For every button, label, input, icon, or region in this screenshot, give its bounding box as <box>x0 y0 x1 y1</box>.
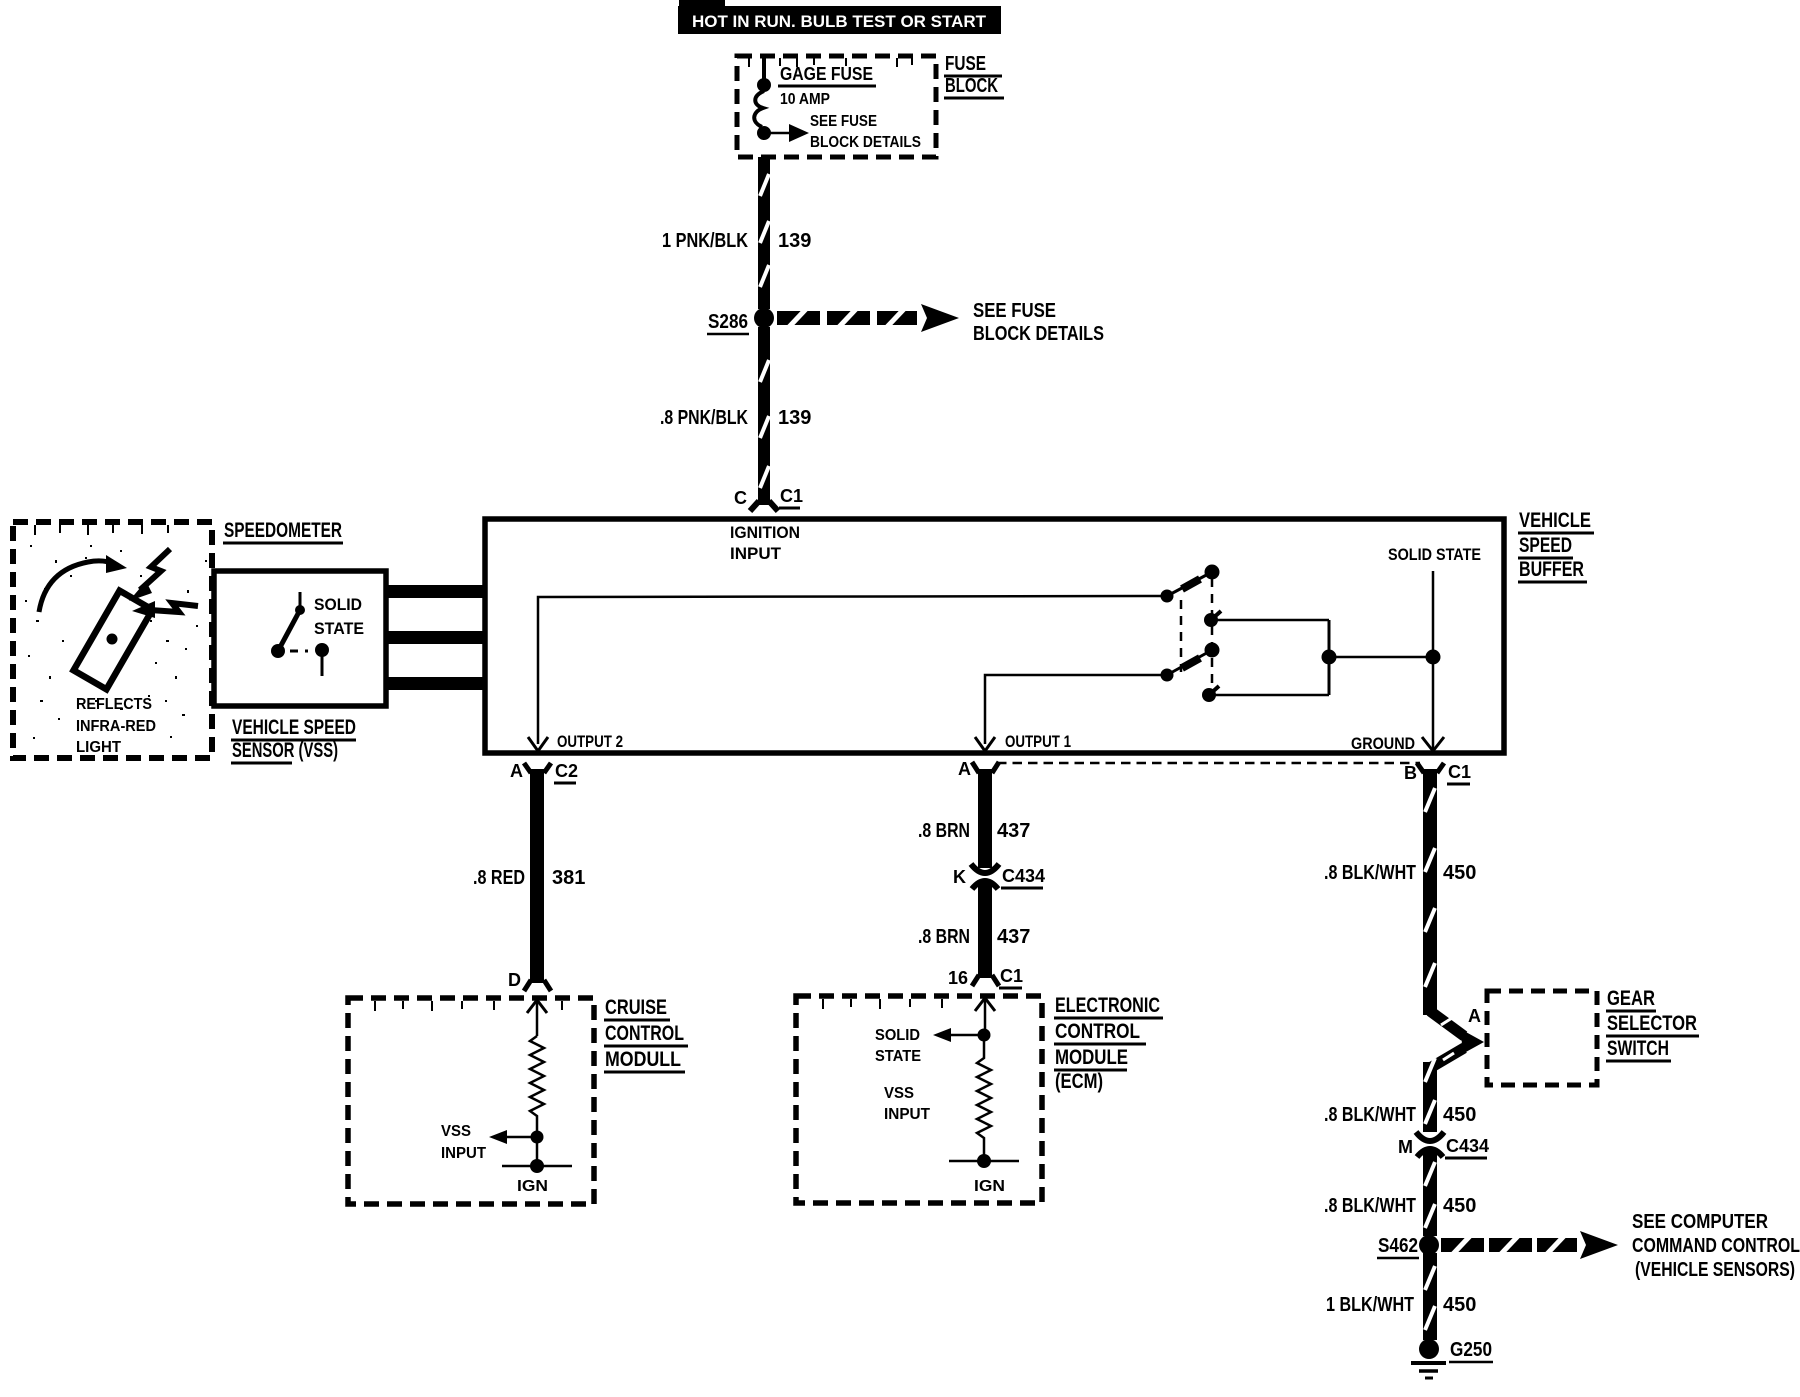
wire .8 BLK/WHT 450 middle <box>1423 1058 1437 1132</box>
svg-text:450: 450 <box>1443 1104 1476 1126</box>
cruise input arrow <box>527 1000 547 1036</box>
svg-text:COMMAND CONTROL: COMMAND CONTROL <box>1632 1235 1800 1257</box>
svg-text:437: 437 <box>997 926 1030 948</box>
infra-red beam arrow lower <box>132 601 198 618</box>
svg-text:C: C <box>734 488 747 508</box>
svg-text:A: A <box>510 761 523 781</box>
splice S462 <box>1377 1235 1439 1258</box>
connector B C1 below buffer (right) <box>1404 762 1471 784</box>
label VEHICLE SPEED BUFFER <box>1518 509 1594 582</box>
svg-text:C1: C1 <box>780 486 803 506</box>
connector A C2 below buffer <box>510 761 578 783</box>
svg-text:G250: G250 <box>1450 1339 1492 1361</box>
wire kink into gear selector switch A <box>1430 1011 1484 1068</box>
svg-text:STATE: STATE <box>314 619 364 638</box>
svg-text:SOLID: SOLID <box>314 595 362 614</box>
svg-text:139: 139 <box>778 230 811 252</box>
label VSS INPUT (ecm) <box>884 1085 930 1123</box>
svg-text:INPUT: INPUT <box>730 544 782 563</box>
label IGNITION INPUT <box>730 523 800 563</box>
cruise control module dashed box <box>348 998 594 1204</box>
svg-text:16: 16 <box>948 968 968 988</box>
dashed arrow S462 to computer command control <box>1441 1231 1618 1259</box>
svg-text:INPUT: INPUT <box>441 1145 486 1162</box>
svg-text:.8 BRN: .8 BRN <box>918 926 970 948</box>
wire .8 BLK/WHT 450 lower <box>1423 1152 1437 1236</box>
arrow to fuse block details <box>766 124 809 142</box>
svg-text:(VEHICLE SENSORS): (VEHICLE SENSORS) <box>1635 1259 1795 1281</box>
label GAGE FUSE <box>778 64 876 86</box>
wire .8 BRN 437 upper <box>978 769 992 868</box>
svg-text:437: 437 <box>997 820 1030 842</box>
svg-text:139: 139 <box>778 407 811 429</box>
ecm input arrow <box>975 998 995 1032</box>
vss sensor element <box>271 592 329 676</box>
svg-text:450: 450 <box>1443 862 1476 884</box>
wire 1 BLK/WHT 450 to ground <box>1423 1253 1437 1340</box>
internal wire to output 2 <box>528 596 1164 751</box>
svg-text:SEE FUSE: SEE FUSE <box>973 300 1056 322</box>
svg-text:M: M <box>1398 1137 1413 1157</box>
cruise vss input node and arrow <box>489 1130 544 1144</box>
svg-text:B: B <box>1404 763 1417 783</box>
vehicle speed sensor box <box>214 571 386 706</box>
svg-text:BLOCK DETAILS: BLOCK DETAILS <box>810 134 921 151</box>
wire stub into fuse <box>762 57 766 82</box>
svg-text:BLOCK: BLOCK <box>945 75 998 97</box>
svg-text:.8 BLK/WHT: .8 BLK/WHT <box>1324 862 1416 884</box>
label G250 <box>1449 1339 1493 1362</box>
internal wire to output 1 <box>975 675 1164 751</box>
svg-text:SPEEDOMETER: SPEEDOMETER <box>224 519 342 542</box>
svg-text:VEHICLE: VEHICLE <box>1519 509 1591 532</box>
label SEE FUSE BLOCK DETAILS (right of S286) <box>973 300 1104 345</box>
svg-text:ELECTRONIC: ELECTRONIC <box>1055 994 1160 1017</box>
electronic control module dashed box <box>796 996 1042 1203</box>
svg-text:SELECTOR: SELECTOR <box>1607 1012 1697 1035</box>
svg-text:IGN: IGN <box>517 1178 548 1195</box>
svg-text:SOLID: SOLID <box>875 1027 920 1044</box>
svg-text:CRUISE: CRUISE <box>605 996 667 1019</box>
svg-text:K: K <box>953 867 966 887</box>
label CRUISE CONTROL MODULL <box>604 996 688 1072</box>
connector M C434 <box>1398 1132 1489 1158</box>
label ELECTRONIC CONTROL MODULE (ECM) <box>1054 994 1163 1093</box>
svg-text:C434: C434 <box>1446 1136 1489 1156</box>
svg-text:MODULL: MODULL <box>605 1048 681 1071</box>
svg-text:450: 450 <box>1443 1195 1476 1217</box>
svg-text:1 PNK/BLK: 1 PNK/BLK <box>662 230 748 252</box>
label SPEEDOMETER <box>223 519 343 543</box>
vehicle speed buffer box <box>485 519 1504 753</box>
label SEE FUSE BLOCK DETAILS <box>810 113 921 151</box>
svg-text:.8 RED: .8 RED <box>473 867 525 889</box>
svg-text:C2: C2 <box>555 761 578 781</box>
node: pole dot upper with wire to right <box>1204 611 1329 627</box>
splice S286 <box>707 308 774 334</box>
svg-text:SOLID STATE: SOLID STATE <box>1388 545 1481 564</box>
vss to buffer bus bar 1 <box>386 585 485 598</box>
svg-text:SWITCH: SWITCH <box>1607 1037 1669 1060</box>
cruise ign node <box>502 1137 572 1173</box>
connector A C1 below buffer (ECM drop) <box>958 759 999 779</box>
reflective vane <box>74 591 153 690</box>
svg-text:.8 BLK/WHT: .8 BLK/WHT <box>1324 1104 1416 1126</box>
svg-text:HOT IN RUN. BULB TEST OR START: HOT IN RUN. BULB TEST OR START <box>692 12 987 31</box>
label GEAR SELECTOR SWITCH <box>1606 987 1699 1061</box>
gear selector switch dashed box <box>1487 991 1597 1085</box>
svg-text:IGN: IGN <box>974 1178 1005 1195</box>
power feed banner HOT IN RUN, BULB TEST OR START <box>678 0 1001 34</box>
switch linkage dashed lines <box>1181 578 1212 694</box>
label SOLID STATE (ecm) <box>875 1027 921 1065</box>
svg-text:CONTROL: CONTROL <box>605 1022 684 1045</box>
svg-text:SEE COMPUTER: SEE COMPUTER <box>1632 1211 1768 1233</box>
node: pole dot lower with wire to right <box>1202 686 1329 702</box>
ecm solid state node and arrow <box>933 1028 991 1042</box>
scan speckles <box>25 545 207 739</box>
connector C C1 at buffer top <box>734 486 803 511</box>
svg-text:S286: S286 <box>708 311 748 333</box>
svg-text:BLOCK DETAILS: BLOCK DETAILS <box>973 323 1104 345</box>
svg-text:IGNITION: IGNITION <box>730 523 800 542</box>
svg-text:381: 381 <box>552 867 585 889</box>
dashed arrow S286 to fuse block details <box>777 304 959 332</box>
junction node to ground line <box>1322 650 1441 665</box>
ecm ign node <box>949 1154 1019 1168</box>
label SEE COMPUTER COMMAND CONTROL (VEHICLE SENSORS) <box>1632 1211 1800 1281</box>
infra-red beam arrow upper <box>129 549 170 601</box>
svg-text:SEE FUSE: SEE FUSE <box>810 113 877 130</box>
svg-text:C434: C434 <box>1002 866 1045 886</box>
vss to buffer bus bar 3 <box>386 677 485 690</box>
svg-text:C1: C1 <box>1448 762 1471 782</box>
switch contact upper <box>1161 565 1220 603</box>
svg-text:450: 450 <box>1443 1294 1476 1316</box>
wire 1 PNK/BLK 139 from fuse block down to S286 <box>758 157 770 309</box>
svg-text:SENSOR (VSS): SENSOR (VSS) <box>232 739 338 762</box>
node dot below gage fuse <box>757 126 771 140</box>
svg-text:STATE: STATE <box>875 1048 921 1065</box>
svg-text:REFLECTS: REFLECTS <box>76 696 152 713</box>
label VEHICLE SPEED SENSOR (VSS) <box>231 716 356 763</box>
cruise resistor <box>530 1036 544 1131</box>
label VSS INPUT (cruise) <box>441 1123 486 1162</box>
svg-text:D: D <box>508 970 521 990</box>
svg-text:INFRA-RED: INFRA-RED <box>76 718 156 735</box>
dashed net below buffer box <box>997 762 1420 765</box>
svg-text:VEHICLE SPEED: VEHICLE SPEED <box>232 716 356 739</box>
connector K C434 <box>953 864 1045 889</box>
wire joining poles <box>1328 620 1331 695</box>
connector D at cruise module <box>508 970 551 991</box>
svg-text:OUTPUT 1: OUTPUT 1 <box>1005 732 1071 751</box>
svg-text:A: A <box>958 759 971 779</box>
fuse block dashed box <box>737 56 936 157</box>
svg-text:SPEED: SPEED <box>1519 534 1572 557</box>
label SOLID STATE (vss) <box>314 595 364 638</box>
svg-text:MODULE: MODULE <box>1055 1046 1128 1069</box>
speedometer dashed box <box>13 522 212 758</box>
svg-text:BUFFER: BUFFER <box>1519 558 1584 581</box>
ecm resistor <box>977 1035 991 1158</box>
svg-text:.8 BLK/WHT: .8 BLK/WHT <box>1324 1195 1416 1217</box>
svg-text:INPUT: INPUT <box>884 1106 930 1123</box>
svg-text:(ECM): (ECM) <box>1055 1070 1103 1093</box>
svg-text:GAGE FUSE: GAGE FUSE <box>780 64 873 84</box>
svg-text:S462: S462 <box>1378 1235 1418 1257</box>
connector 16 C1 at ECM <box>948 966 1023 988</box>
svg-text:FUSE: FUSE <box>945 53 986 75</box>
internal ground wire <box>1422 571 1444 751</box>
wire .8 BRN 437 lower <box>978 884 992 978</box>
svg-text:GEAR: GEAR <box>1607 987 1655 1010</box>
svg-text:A: A <box>1468 1006 1481 1026</box>
ground G250 <box>1411 1339 1446 1378</box>
svg-text:VSS: VSS <box>441 1123 471 1140</box>
wire .8 BLK/WHT 450 upper <box>1423 769 1437 1015</box>
wire .8 RED 381 <box>530 769 544 983</box>
label REFLECTS INFRA-RED LIGHT <box>76 696 156 756</box>
svg-text:CONTROL: CONTROL <box>1055 1020 1140 1043</box>
svg-text:C1: C1 <box>1000 966 1023 986</box>
gage fuse element <box>754 91 764 127</box>
svg-text:GROUND: GROUND <box>1351 734 1415 753</box>
wire .8 PNK/BLK 139 from S286 down to C1 <box>758 327 770 505</box>
svg-text:.8 BRN: .8 BRN <box>918 820 970 842</box>
node dot above gage fuse <box>757 78 771 92</box>
label FUSE BLOCK <box>944 53 1004 98</box>
svg-text:1 BLK/WHT: 1 BLK/WHT <box>1326 1294 1414 1316</box>
rotation arc arrow <box>39 555 127 612</box>
svg-text:OUTPUT 2: OUTPUT 2 <box>557 732 623 751</box>
svg-text:.8 PNK/BLK: .8 PNK/BLK <box>660 407 748 429</box>
vss to buffer bus bar 2 <box>386 631 485 644</box>
switch contact lower <box>1161 643 1220 682</box>
svg-text:VSS: VSS <box>884 1085 914 1102</box>
svg-text:LIGHT: LIGHT <box>76 739 121 756</box>
svg-text:10 AMP: 10 AMP <box>780 91 830 108</box>
